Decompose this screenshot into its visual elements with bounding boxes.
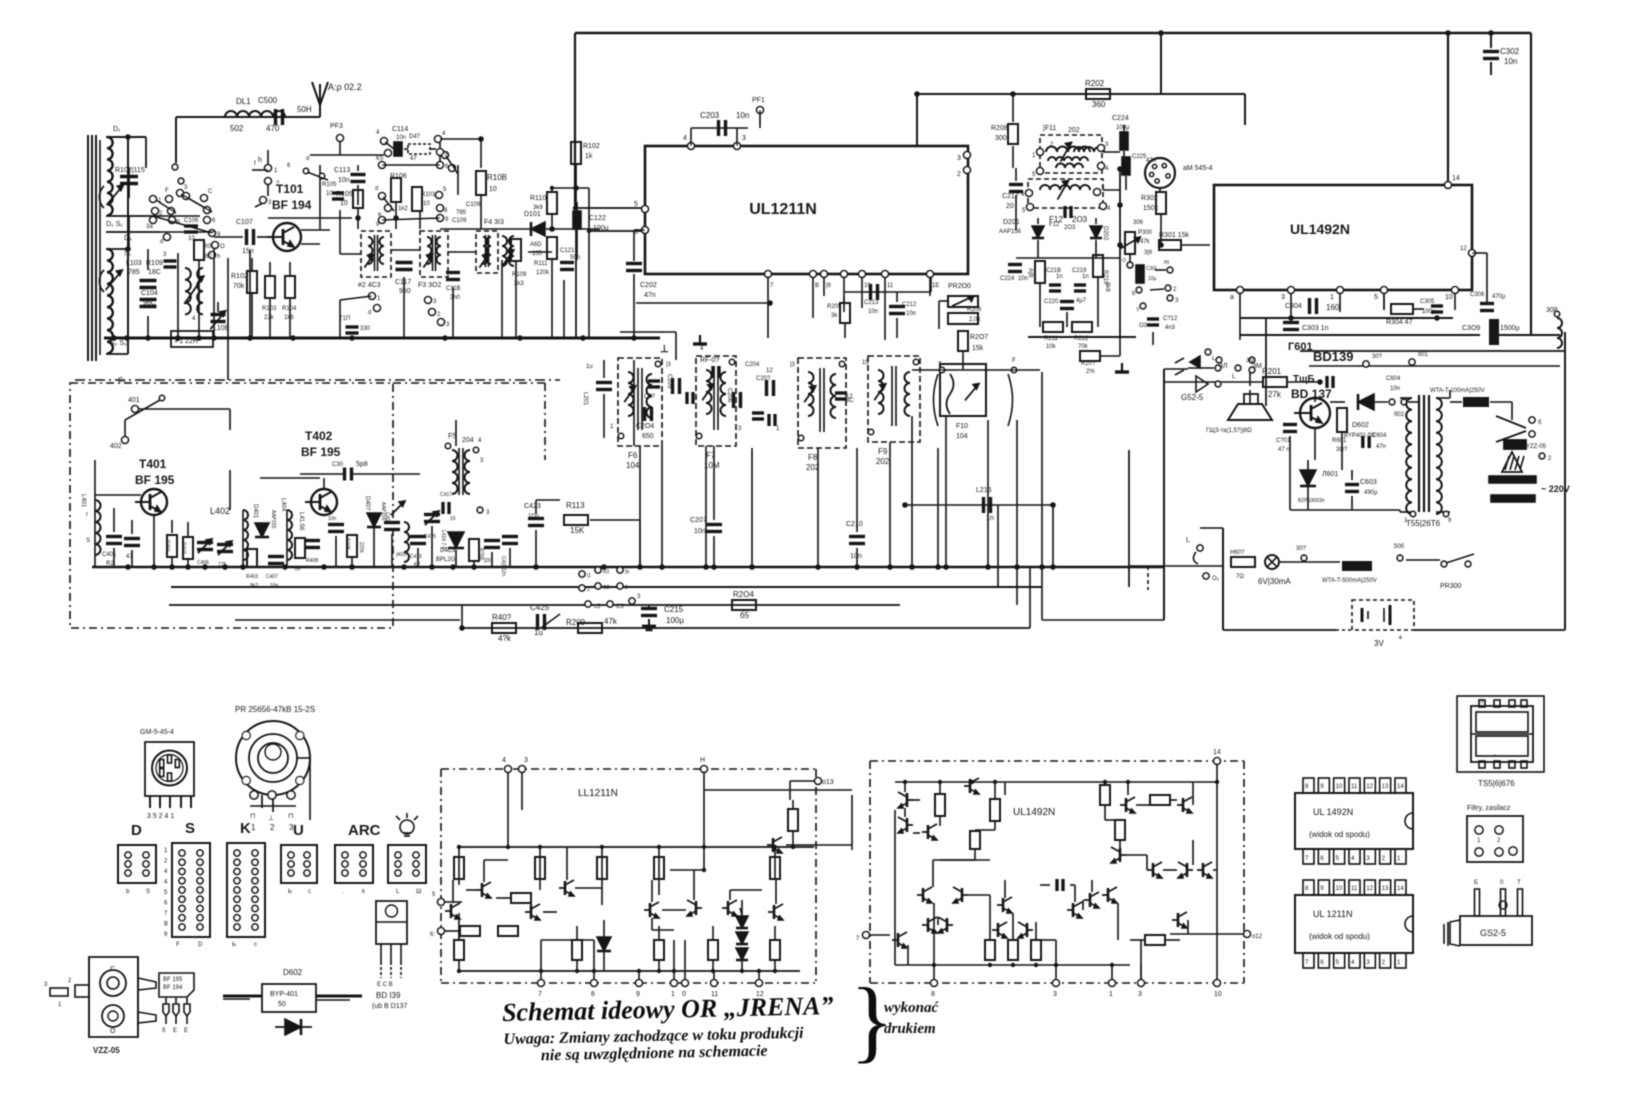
svg-text:10: 10 bbox=[489, 186, 497, 193]
svg-text:Б: Б bbox=[1474, 880, 1478, 886]
svg-text:14: 14 bbox=[1397, 784, 1404, 790]
svg-text:BF 195: BF 195 bbox=[135, 473, 175, 487]
svg-text:~ 220V: ~ 220V bbox=[1541, 484, 1570, 494]
svg-text:⊓: ⊓ bbox=[288, 813, 293, 820]
svg-text:C406: C406 bbox=[197, 560, 209, 566]
svg-text:D₂ S₁: D₂ S₁ bbox=[106, 221, 123, 228]
svg-text:T401: T401 bbox=[139, 457, 167, 471]
svg-text:F6: F6 bbox=[628, 451, 638, 460]
svg-text:б01: б01 bbox=[1418, 352, 1429, 358]
svg-text:D202: D202 bbox=[1102, 226, 1108, 241]
svg-text:C500: C500 bbox=[258, 96, 278, 105]
svg-text:10n: 10n bbox=[906, 311, 916, 317]
svg-text:10: 10 bbox=[1445, 294, 1453, 301]
svg-text:10: 10 bbox=[1336, 784, 1343, 790]
svg-text:R102: R102 bbox=[583, 143, 600, 150]
svg-text:300: 300 bbox=[995, 135, 1007, 142]
svg-text:650: 650 bbox=[642, 433, 654, 440]
svg-text:3 5 2 4 1: 3 5 2 4 1 bbox=[147, 813, 174, 820]
svg-text:C215: C215 bbox=[664, 605, 684, 614]
svg-text:L402: L402 bbox=[210, 506, 230, 516]
svg-text:12: 12 bbox=[1460, 246, 1467, 252]
svg-text:2O3: 2O3 bbox=[1072, 215, 1088, 224]
svg-text:TS5|6|676: TS5|6|676 bbox=[1478, 779, 1515, 788]
svg-text:3: 3 bbox=[742, 135, 746, 142]
svg-text:Ь: Ь bbox=[232, 942, 236, 948]
svg-text:UL 1492N: UL 1492N bbox=[1313, 807, 1353, 817]
svg-text:UL 1211N: UL 1211N bbox=[1313, 909, 1353, 919]
svg-text:8C: 8C bbox=[846, 398, 854, 404]
svg-text:h: h bbox=[217, 254, 220, 260]
svg-text:D4?: D4? bbox=[409, 134, 421, 140]
svg-text:C3: C3 bbox=[616, 604, 624, 610]
svg-text:70k: 70k bbox=[1078, 344, 1089, 350]
svg-text:R205: R205 bbox=[827, 304, 842, 310]
svg-text:Ш: Ш bbox=[416, 889, 422, 895]
svg-text:C306: C306 bbox=[1470, 292, 1485, 298]
svg-text:O3: O3 bbox=[1139, 323, 1148, 329]
svg-text:d: d bbox=[368, 310, 371, 316]
svg-text:785: 785 bbox=[456, 210, 467, 216]
svg-text:10n: 10n bbox=[1018, 276, 1028, 282]
svg-text:L416 7.5: L416 7.5 bbox=[440, 530, 446, 550]
svg-text:UL1492N: UL1492N bbox=[1013, 807, 1055, 818]
svg-text:5: 5 bbox=[634, 201, 638, 208]
svg-text:F10: F10 bbox=[956, 423, 968, 430]
svg-text:|3: |3 bbox=[666, 362, 672, 368]
svg-text:o12: o12 bbox=[1252, 934, 1263, 940]
svg-text:C20?: C20? bbox=[756, 376, 771, 382]
svg-text:R105: R105 bbox=[322, 182, 337, 188]
svg-text:2,0k: 2,0k bbox=[969, 317, 981, 323]
svg-text:R304 47: R304 47 bbox=[1386, 319, 1413, 326]
svg-text:R109: R109 bbox=[512, 272, 527, 278]
svg-text:1: 1 bbox=[251, 823, 256, 832]
svg-text:C121: C121 bbox=[560, 248, 575, 254]
svg-text:5: 5 bbox=[1374, 294, 1378, 301]
svg-text:3: 3 bbox=[1053, 991, 1057, 998]
svg-text:A:ρ 02.2: A:ρ 02.2 bbox=[328, 82, 362, 92]
svg-text:3: 3 bbox=[957, 155, 961, 162]
svg-text:13: 13 bbox=[1382, 886, 1389, 892]
svg-text:K: K bbox=[240, 820, 251, 837]
svg-text:D: D bbox=[131, 822, 142, 839]
svg-text:#2 4C3: #2 4C3 bbox=[358, 282, 381, 289]
svg-text:401: 401 bbox=[128, 397, 140, 404]
svg-text:10n: 10n bbox=[396, 135, 406, 141]
svg-text:F5: F5 bbox=[448, 433, 456, 440]
svg-text:m: m bbox=[1164, 260, 1169, 266]
svg-text:3k9: 3k9 bbox=[533, 205, 543, 211]
svg-text:10n: 10n bbox=[850, 553, 862, 560]
svg-text:4: 4 bbox=[683, 135, 687, 142]
svg-text:S₁: S₁ bbox=[124, 250, 132, 257]
svg-text:7Ω: 7Ω bbox=[1236, 574, 1244, 580]
svg-text:C113: C113 bbox=[334, 167, 350, 174]
svg-text:d: d bbox=[160, 239, 163, 245]
svg-text:1E: 1E bbox=[932, 283, 939, 289]
svg-text:BPL2G: BPL2G bbox=[436, 557, 456, 563]
svg-text:б: б bbox=[162, 1028, 166, 1034]
svg-text:|a: |a bbox=[625, 569, 629, 575]
svg-text:D₄: D₄ bbox=[124, 235, 132, 242]
svg-text:o13: o13 bbox=[822, 779, 834, 786]
svg-text:PF1: PF1 bbox=[752, 97, 765, 104]
svg-text:B: B bbox=[815, 283, 819, 289]
svg-text:220k: 220k bbox=[358, 542, 364, 553]
svg-text:⊥: ⊥ bbox=[660, 344, 669, 355]
svg-text:C107: C107 bbox=[236, 219, 253, 226]
svg-text:R2O4: R2O4 bbox=[733, 590, 754, 599]
svg-text:.: . bbox=[1475, 844, 1476, 850]
svg-text:O: O bbox=[220, 244, 225, 250]
svg-text:3a: 3a bbox=[146, 224, 153, 230]
svg-text:60: 60 bbox=[205, 254, 212, 260]
svg-text:47k: 47k bbox=[604, 617, 618, 626]
svg-text:C225: C225 bbox=[1132, 154, 1147, 160]
svg-text:20: 20 bbox=[1006, 203, 1014, 210]
svg-text:47 n: 47 n bbox=[1278, 447, 1290, 453]
svg-text:|20: |20 bbox=[484, 558, 491, 564]
svg-text:12: 12 bbox=[1366, 886, 1373, 892]
svg-text:C: C bbox=[110, 966, 115, 973]
svg-text:C114: C114 bbox=[392, 126, 408, 133]
svg-text:8: 8 bbox=[931, 991, 935, 998]
svg-text:C122: C122 bbox=[589, 215, 606, 222]
svg-text:L: L bbox=[1186, 537, 1190, 544]
svg-text:3: 3 bbox=[1138, 991, 1142, 998]
svg-text:100µ: 100µ bbox=[1422, 309, 1436, 315]
svg-text:10n: 10n bbox=[1390, 386, 1400, 392]
svg-text:C117: C117 bbox=[395, 279, 411, 286]
svg-text:C604: C604 bbox=[1386, 376, 1401, 382]
svg-text:T55|26T6: T55|26T6 bbox=[1406, 519, 1441, 528]
svg-text:D602: D602 bbox=[1352, 422, 1369, 429]
svg-text:T101: T101 bbox=[276, 182, 304, 196]
svg-text:1Dn: 1Dn bbox=[528, 514, 539, 520]
svg-text:6:: 6: bbox=[430, 932, 435, 938]
svg-text:C4?5: C4?5 bbox=[424, 534, 436, 540]
svg-text:C423: C423 bbox=[524, 503, 541, 510]
svg-text:c: c bbox=[308, 889, 311, 895]
svg-text:10: 10 bbox=[340, 200, 348, 207]
svg-text:15: 15 bbox=[862, 360, 869, 366]
svg-text:S: S bbox=[86, 538, 90, 544]
svg-text:96C: 96C bbox=[143, 300, 156, 307]
svg-text:B: B bbox=[164, 922, 168, 928]
svg-text:|1: |1 bbox=[587, 573, 591, 579]
svg-text:P300: P300 bbox=[1138, 230, 1153, 236]
svg-text:F4 3I3: F4 3I3 bbox=[484, 219, 504, 226]
svg-text:10n: 10n bbox=[694, 528, 706, 535]
svg-text:H: H bbox=[700, 757, 705, 764]
svg-text:Л601: Л601 bbox=[1322, 471, 1338, 478]
svg-text:C104: C104 bbox=[141, 290, 158, 297]
svg-text:PR 25656-47kB 15-2S: PR 25656-47kB 15-2S bbox=[235, 705, 315, 714]
svg-text:R301 15k: R301 15k bbox=[1159, 232, 1189, 239]
svg-text:12: 12 bbox=[1366, 784, 1373, 790]
svg-text:1k6: 1k6 bbox=[284, 315, 294, 321]
svg-text:330: 330 bbox=[360, 326, 371, 332]
svg-text:R405: R405 bbox=[344, 538, 350, 550]
svg-text:YZZ-05: YZZ-05 bbox=[1526, 444, 1547, 450]
svg-text:C302: C302 bbox=[1500, 47, 1520, 56]
svg-text:10: 10 bbox=[423, 201, 430, 207]
svg-text:drukiem: drukiem bbox=[884, 1021, 936, 1037]
svg-text:C207: C207 bbox=[690, 517, 707, 524]
svg-text:160: 160 bbox=[1326, 303, 1340, 312]
svg-text:30?: 30? bbox=[1372, 354, 1383, 360]
svg-text:10: 10 bbox=[1214, 991, 1222, 998]
svg-text:47n: 47n bbox=[1376, 444, 1386, 450]
svg-text:R402: R402 bbox=[180, 542, 186, 554]
svg-text:120k: 120k bbox=[536, 270, 550, 276]
svg-text:960: 960 bbox=[399, 288, 411, 295]
svg-text:BZP63003п: BZP63003п bbox=[1298, 498, 1325, 504]
svg-text:2%: 2% bbox=[1086, 369, 1095, 375]
svg-text:R106: R106 bbox=[390, 173, 407, 180]
svg-text:C304: C304 bbox=[1285, 303, 1302, 310]
svg-text:O: O bbox=[1122, 258, 1126, 264]
svg-text:D40?: D40? bbox=[364, 496, 370, 511]
svg-text:k|1: k|1 bbox=[603, 569, 610, 575]
svg-text:aM 545-4: aM 545-4 bbox=[1183, 165, 1213, 172]
svg-text:2: 2 bbox=[587, 587, 590, 593]
svg-text:C415: C415 bbox=[410, 554, 422, 560]
svg-text:R202: R202 bbox=[1085, 79, 1105, 88]
svg-text:(ub B D137: (ub B D137 bbox=[372, 1003, 408, 1010]
svg-text:27k: 27k bbox=[1268, 390, 1282, 399]
svg-text:150k: 150k bbox=[1143, 205, 1159, 212]
svg-text:WTA-T-500mA|250V: WTA-T-500mA|250V bbox=[1322, 578, 1377, 584]
svg-text:r: r bbox=[86, 512, 88, 518]
svg-text:R201: R201 bbox=[1262, 367, 1282, 376]
svg-text:DL1: DL1 bbox=[236, 97, 251, 106]
svg-text:10n: 10n bbox=[868, 309, 878, 315]
svg-text:R20?: R20? bbox=[1081, 361, 1096, 367]
svg-text:14: 14 bbox=[1397, 886, 1404, 892]
svg-text:L41.56: L41.56 bbox=[298, 512, 304, 531]
svg-text:50: 50 bbox=[278, 1001, 286, 1008]
svg-text:R40?: R40? bbox=[492, 613, 512, 622]
svg-text:BF 194: BF 194 bbox=[272, 198, 312, 212]
svg-text:D602: D602 bbox=[283, 968, 303, 977]
svg-text:c: c bbox=[254, 942, 257, 948]
svg-text:UL1492N: UL1492N bbox=[1290, 221, 1350, 237]
svg-text:C109: C109 bbox=[466, 202, 481, 208]
svg-text:G52-5: G52-5 bbox=[1181, 393, 1204, 402]
svg-text:C204: C204 bbox=[745, 362, 760, 368]
svg-text:wykonać: wykonać bbox=[884, 1000, 940, 1016]
svg-text:1n: 1n bbox=[1082, 274, 1089, 280]
svg-text:C106: C106 bbox=[184, 218, 199, 224]
svg-text:L201: L201 bbox=[582, 392, 588, 406]
svg-text:14: 14 bbox=[1452, 175, 1460, 182]
svg-text:47: 47 bbox=[410, 156, 417, 162]
svg-text:13: 13 bbox=[1382, 784, 1389, 790]
svg-text:PF3: PF3 bbox=[330, 123, 343, 130]
svg-text:5p8: 5p8 bbox=[356, 461, 368, 468]
svg-text:D401: D401 bbox=[252, 504, 258, 519]
svg-text:C205: C205 bbox=[666, 374, 672, 389]
svg-text:R401: R401 bbox=[164, 540, 170, 552]
svg-text:470: 470 bbox=[266, 124, 280, 133]
svg-text:C202: C202 bbox=[640, 282, 657, 289]
svg-text:15n: 15n bbox=[242, 248, 254, 255]
svg-text:RF-0?: RF-0? bbox=[700, 357, 720, 364]
svg-text:R302: R302 bbox=[1141, 195, 1158, 202]
svg-text:R110: R110 bbox=[530, 195, 546, 202]
svg-text:402: 402 bbox=[110, 443, 122, 450]
svg-text:30?: 30? bbox=[1296, 546, 1307, 552]
svg-text:306: 306 bbox=[1133, 220, 1144, 226]
svg-text:C4|9 12n: C4|9 12n bbox=[500, 556, 506, 576]
svg-text:BYP401-50: BYP401-50 bbox=[1344, 433, 1375, 439]
svg-text:C?01: C?01 bbox=[1276, 438, 1291, 444]
svg-text:F12: F12 bbox=[1049, 222, 1060, 228]
svg-text:4?k: 4?k bbox=[498, 634, 512, 643]
svg-text:C109: C109 bbox=[452, 218, 467, 224]
svg-text:1n: 1n bbox=[986, 515, 994, 522]
svg-text:C407: C407 bbox=[266, 574, 278, 580]
svg-text:VZZ-05: VZZ-05 bbox=[93, 1046, 120, 1055]
svg-text:C220: C220 bbox=[1044, 299, 1059, 305]
svg-text:R101: R101 bbox=[421, 192, 436, 198]
svg-text:BF 195: BF 195 bbox=[163, 977, 183, 983]
svg-text:BF 194: BF 194 bbox=[163, 985, 183, 991]
svg-text:AAP155: AAP155 bbox=[270, 510, 276, 529]
svg-text:UL1211N: UL1211N bbox=[749, 201, 817, 218]
svg-text:C30: C30 bbox=[332, 462, 344, 468]
svg-text:25: 25 bbox=[1478, 699, 1484, 705]
svg-text:10n: 10n bbox=[270, 583, 279, 589]
svg-text:502: 502 bbox=[230, 124, 244, 133]
svg-text:GS2-5: GS2-5 bbox=[1480, 928, 1506, 938]
svg-text:T1П: T1П bbox=[339, 316, 350, 322]
svg-text:F: F bbox=[165, 188, 169, 194]
svg-text:3: 3 bbox=[524, 757, 528, 764]
svg-text:100µ: 100µ bbox=[666, 616, 684, 625]
svg-text:6V|30mA: 6V|30mA bbox=[1258, 577, 1291, 586]
svg-text:C224: C224 bbox=[1000, 276, 1015, 282]
svg-text:204: 204 bbox=[462, 437, 474, 444]
svg-text:2O3: 2O3 bbox=[1064, 225, 1076, 231]
svg-text:+: + bbox=[1398, 633, 1403, 642]
svg-text:10: 10 bbox=[1336, 886, 1343, 892]
svg-text:d: d bbox=[375, 186, 378, 192]
svg-text:|F11: |F11 bbox=[1043, 125, 1056, 132]
svg-text:R10B: R10B bbox=[487, 173, 507, 182]
svg-text:C414: C414 bbox=[384, 512, 390, 524]
svg-text:11: 11 bbox=[887, 283, 894, 289]
svg-text:⊓: ⊓ bbox=[250, 813, 255, 820]
svg-text:C212: C212 bbox=[902, 302, 917, 308]
svg-text:D201: D201 bbox=[1003, 219, 1020, 226]
svg-text:3: 3 bbox=[1281, 294, 1285, 301]
svg-text:2: 2 bbox=[625, 585, 628, 591]
svg-text:E: E bbox=[173, 1028, 177, 1034]
svg-text:⊥: ⊥ bbox=[268, 815, 274, 822]
svg-text:15k: 15k bbox=[972, 345, 984, 352]
svg-text:LL1211N: LL1211N bbox=[578, 788, 618, 799]
svg-text:10µ: 10µ bbox=[1148, 276, 1157, 282]
svg-text:4µ7: 4µ7 bbox=[1076, 298, 1087, 304]
svg-text:F9: F9 bbox=[878, 447, 888, 456]
svg-text:775: 775 bbox=[218, 562, 227, 568]
svg-text:F: F bbox=[1012, 358, 1016, 364]
svg-text:10n: 10n bbox=[1504, 57, 1517, 66]
svg-text:14: 14 bbox=[1213, 749, 1221, 756]
svg-text:C305: C305 bbox=[1420, 299, 1435, 305]
svg-text:S: S bbox=[185, 820, 195, 837]
svg-text:(widok od spodu): (widok od spodu) bbox=[1309, 830, 1370, 839]
svg-text:F: F bbox=[176, 942, 180, 948]
svg-text:c3: c3 bbox=[594, 604, 601, 610]
svg-text:D: D bbox=[198, 942, 203, 948]
svg-text:785: 785 bbox=[128, 269, 140, 276]
svg-text:C213: C213 bbox=[864, 300, 879, 306]
svg-text:A6D: A6D bbox=[530, 242, 542, 248]
svg-text:R206: R206 bbox=[967, 307, 982, 313]
svg-text:E C B: E C B bbox=[377, 982, 393, 988]
svg-text:C425: C425 bbox=[530, 603, 550, 612]
svg-text:C?12: C?12 bbox=[1163, 316, 1178, 322]
svg-text:1500µ: 1500µ bbox=[1500, 325, 1520, 332]
svg-text:R209: R209 bbox=[566, 618, 586, 627]
svg-text:1k2: 1k2 bbox=[398, 206, 408, 212]
svg-text:R102: R102 bbox=[231, 273, 248, 280]
svg-text:C2O4: C2O4 bbox=[636, 423, 654, 430]
svg-text:C: C bbox=[208, 189, 213, 195]
svg-text:WTA-T-100mA|250V: WTA-T-100mA|250V bbox=[1430, 388, 1485, 394]
svg-text:U: U bbox=[293, 822, 304, 839]
svg-text:C9?: C9? bbox=[644, 394, 656, 400]
svg-text:16: 16 bbox=[450, 516, 456, 522]
svg-text:O: O bbox=[110, 1028, 116, 1035]
svg-text:C30|: C30| bbox=[1146, 266, 1156, 272]
svg-text:C2: C2 bbox=[603, 585, 610, 591]
svg-text:R113: R113 bbox=[566, 501, 585, 510]
svg-text:F8: F8 bbox=[808, 453, 818, 462]
svg-text:470µ: 470µ bbox=[1492, 294, 1506, 300]
svg-text:202: 202 bbox=[876, 457, 890, 466]
svg-text:R111: R111 bbox=[534, 261, 548, 267]
svg-text:12: 12 bbox=[766, 368, 773, 374]
svg-text:1k: 1k bbox=[585, 153, 593, 160]
svg-text:зМ: зМ bbox=[1246, 357, 1255, 364]
svg-text:L103: L103 bbox=[126, 260, 142, 267]
svg-text:R2: R2 bbox=[106, 561, 114, 567]
svg-text:б02: б02 bbox=[1394, 412, 1405, 418]
svg-text:L10B: L10B bbox=[213, 325, 230, 332]
svg-text:Ь: Ь bbox=[288, 889, 292, 895]
svg-text:R01: R01 bbox=[203, 244, 215, 250]
svg-text:C206: C206 bbox=[726, 388, 732, 403]
svg-text:L401: L401 bbox=[80, 494, 86, 508]
svg-text:360: 360 bbox=[1092, 100, 1106, 109]
svg-text:C224: C224 bbox=[1112, 115, 1129, 122]
svg-text:F3 3O2: F3 3O2 bbox=[418, 282, 441, 289]
svg-text:104: 104 bbox=[956, 433, 968, 440]
svg-text:2: 2 bbox=[270, 823, 275, 832]
svg-text:a: a bbox=[1230, 294, 1234, 301]
svg-text:ARC: ARC bbox=[348, 822, 381, 839]
svg-text:R2O7: R2O7 bbox=[970, 334, 988, 341]
svg-text:C417: C417 bbox=[440, 492, 452, 498]
svg-text:H60?: H60? bbox=[1230, 550, 1245, 556]
svg-text:1u: 1u bbox=[534, 628, 543, 637]
svg-text:D101: D101 bbox=[524, 211, 541, 218]
